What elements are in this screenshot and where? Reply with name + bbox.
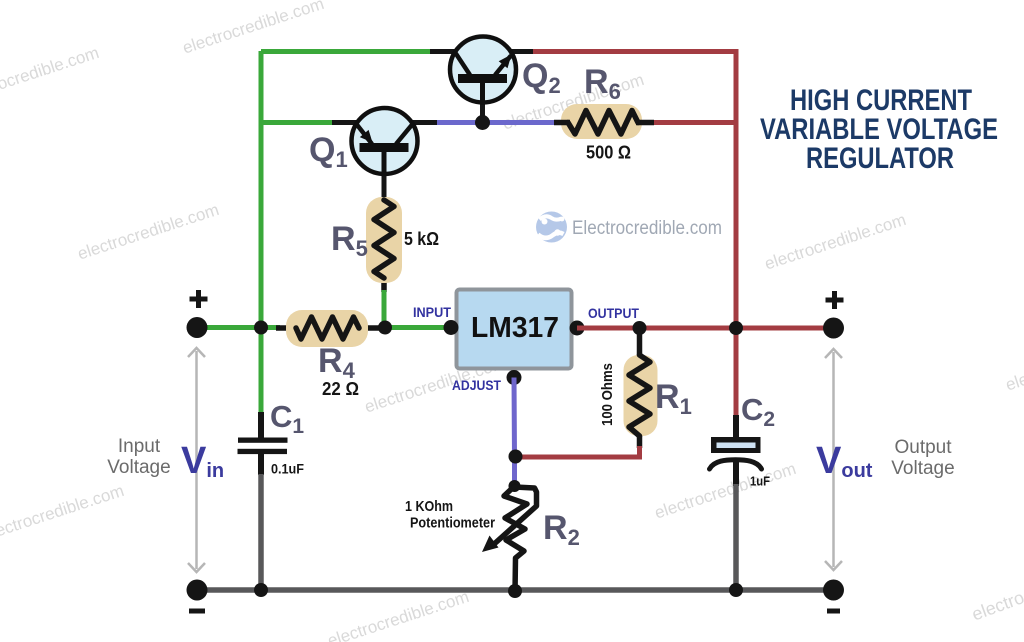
junction dot Q2 base / blue wire [475, 115, 490, 130]
pin dot OUTPUT [570, 321, 585, 336]
LM317 box [457, 290, 572, 369]
minus sign input [189, 609, 205, 614]
potentiometer R2 zigzag [504, 486, 527, 592]
junction dot pot/ground [508, 584, 522, 598]
svg-text:electrocredible.com: electrocredible.com [1003, 331, 1024, 395]
terminal dot input + [187, 317, 208, 338]
wire: green from R4 junction to LM317 input pin [385, 325, 450, 330]
svg-text:Voltage: Voltage [107, 457, 170, 478]
wire: black stub out of Q2 right [505, 49, 535, 54]
svg-text:1 KOhm: 1 KOhm [405, 498, 453, 515]
wire: blue adjust wire down [512, 378, 518, 482]
resistor R4 blob [286, 310, 368, 347]
svg-text:electrocredible.com: electrocredible.com [0, 481, 126, 545]
wire: Q1 base stem black down to R5 [382, 150, 387, 202]
svg-text:500 Ω: 500 Ω [586, 143, 631, 163]
wire: blue from Q1 to R6 [437, 120, 556, 125]
resistor R6 blob [561, 104, 642, 139]
potentiometer R2 top dot [509, 480, 521, 492]
wire: red from R6 to right rail [654, 120, 736, 125]
svg-text:R1: R1 [655, 378, 692, 419]
capacitor C2 bottom curved plate [710, 460, 762, 469]
capacitor C1 plates [238, 438, 288, 443]
transistor Q1 [352, 108, 418, 174]
input voltage measure arrow [188, 348, 205, 572]
svg-text:Q2: Q2 [522, 57, 561, 98]
resistor R4 zigzag 22 Ohm [296, 317, 359, 339]
resistor R1 zigzag 100 Ohms [629, 355, 650, 436]
potentiometer R2 wiper arrow [493, 487, 537, 545]
transistor Q2 [450, 37, 516, 103]
svg-text:Input: Input [118, 436, 161, 457]
wire: black stub into Q1 left [332, 120, 362, 125]
svg-text:electrocredible.com: electrocredible.com [75, 200, 221, 264]
junction dot C1/ground [254, 583, 268, 597]
svg-text:electrocredible.com: electrocredible.com [762, 210, 908, 274]
wire: gray C2 to ground rail [733, 484, 739, 590]
ground rail [197, 587, 834, 593]
svg-text:ADJUST: ADJUST [452, 378, 502, 393]
wire: red from R1 bottom to adjust junction [516, 446, 640, 457]
svg-text:100 Ohms: 100 Ohms [599, 363, 616, 426]
wire: black stub out of Q1 right [408, 120, 438, 125]
logo icon [536, 212, 567, 243]
terminal dot output - [823, 580, 844, 601]
junction dot R1 top [633, 321, 647, 335]
wire: red output row [577, 326, 834, 331]
svg-text:INPUT: INPUT [413, 305, 452, 320]
svg-text:1uF: 1uF [750, 474, 770, 489]
wire: black stub into Q2 left [430, 49, 462, 54]
wire: green junction to R4 [261, 325, 280, 330]
wire: green top horizontal to Q2 [261, 49, 432, 54]
svg-text:22 Ω: 22 Ω [322, 379, 359, 399]
wire: red top horizontal from Q2 to right rail [533, 52, 736, 331]
resistor R6 zigzag 500 Ohm [568, 111, 638, 135]
capacitor C1 bottom black lead [258, 454, 264, 475]
svg-text:R6: R6 [584, 63, 621, 104]
wire: input row: terminal to junction (green) [197, 325, 263, 330]
plus sign input [190, 290, 208, 308]
svg-text:electrocredible.com: electrocredible.com [652, 459, 798, 523]
wire: R6 right black lead [636, 120, 654, 126]
svg-text:Electrocredible.com: Electrocredible.com [572, 218, 722, 239]
wire: R1 bottom black lead [637, 435, 643, 448]
wire: green row2 to Q1 [261, 120, 334, 125]
terminal dot input - [187, 580, 208, 601]
svg-text:R5: R5 [331, 220, 368, 261]
svg-text:C1: C1 [270, 399, 304, 438]
pin dot INPUT [444, 320, 459, 335]
capacitor C1 top black lead [258, 412, 264, 438]
resistor R5 blob [366, 197, 402, 283]
wire: R6 left black lead [554, 120, 570, 126]
svg-text:Potentiometer: Potentiometer [410, 515, 495, 532]
svg-text:LM317: LM317 [471, 312, 559, 344]
pin dot ADJUST [507, 370, 522, 385]
terminal dot output + [823, 318, 844, 339]
wire: R5 bottom black lead [381, 276, 387, 292]
resistor R5 zigzag 5 kOhm [374, 200, 394, 278]
svg-text:Vin: Vin [181, 440, 224, 482]
svg-text:R4: R4 [318, 342, 356, 383]
svg-text:electrocredible.com: electrocredible.com [0, 43, 101, 107]
capacitor C2 top plate box [711, 437, 761, 453]
svg-text:Output: Output [894, 437, 952, 458]
svg-text:electrocredible.com: electrocredible.com [969, 552, 1024, 624]
svg-text:R2: R2 [543, 509, 580, 550]
minus sign output [827, 609, 840, 614]
svg-text:Q1: Q1 [309, 131, 348, 172]
junction dot input node [254, 321, 268, 335]
output voltage measure arrow [825, 349, 842, 570]
junction dot right rail/output row [729, 321, 743, 335]
plus sign output [826, 291, 844, 309]
svg-text:Vout: Vout [816, 440, 873, 482]
junction dot C2/ground [729, 583, 743, 597]
svg-text:Voltage: Voltage [891, 458, 954, 479]
svg-text:electrocredible.com: electrocredible.com [180, 0, 326, 58]
resistor R1 blob [624, 355, 658, 436]
wire: R1 top black lead [637, 328, 643, 357]
svg-text:5 kΩ: 5 kΩ [404, 229, 439, 249]
wire: R4 left black lead [276, 325, 298, 331]
junction dot adjust/red node [509, 450, 523, 464]
junction dot R4/R5 node [378, 321, 392, 335]
svg-text:C2: C2 [741, 392, 775, 431]
svg-text:electrocredible.com: electrocredible.com [325, 587, 471, 642]
wire: gray C1 to ground rail [258, 474, 264, 590]
wire: Q2 base stem black [480, 83, 485, 123]
svg-text:REGULATOR: REGULATOR [806, 142, 954, 175]
svg-text:0.1uF: 0.1uF [271, 461, 304, 477]
wire: green left rail vertical [259, 51, 264, 414]
svg-text:OUTPUT: OUTPUT [588, 306, 640, 321]
capacitor C2 black lead [733, 415, 739, 438]
wire: R4 right black lead [357, 325, 384, 331]
wire: red right rail down to C2 [734, 328, 739, 418]
capacitor C2 stem [733, 458, 739, 486]
wire: green from R5 down to input row junction [382, 290, 387, 328]
